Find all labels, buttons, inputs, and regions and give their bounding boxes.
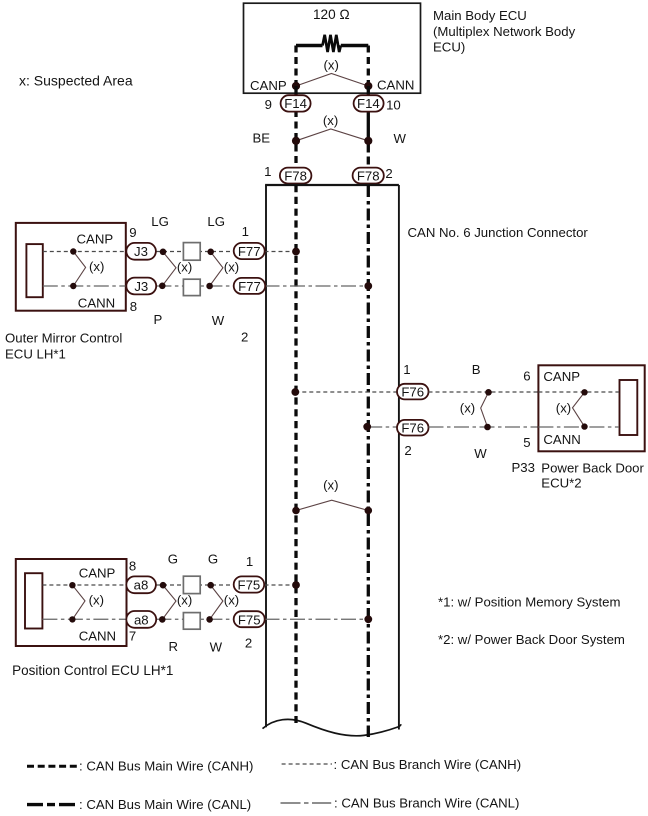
svg-text:*2: w/ Power Back Door System: *2: w/ Power Back Door System [438,632,625,647]
legend sample CAN bus branch wire CANL [281,802,332,804]
svg-text:(x): (x) [177,259,192,274]
svg-text:LG: LG [151,214,169,229]
svg-text:2: 2 [404,443,411,458]
wire CANL main bus (vertical, in junction box) [367,185,370,737]
node dot on CANH bus row3 [292,581,300,589]
wire CANH branch bus to F76 [295,391,397,393]
svg-text:F14: F14 [357,96,380,111]
node dot after J3 top [160,249,167,256]
svg-text:CAN No. 6 Junction Connector: CAN No. 6 Junction Connector [408,225,589,240]
svg-text:120 Ω: 120 Ω [313,7,350,22]
wire CANL branch F75 to bus [265,618,369,620]
wire CANL branch inside P33 [538,426,619,428]
wire CANL branch inside ECU [43,285,126,287]
svg-text:LG: LG [207,214,225,229]
svg-text:Main Body ECU: Main Body ECU [433,8,527,23]
node dot after a8 bottom [159,616,166,623]
Main Body ECU box [244,3,421,93]
node dot on CANL bus row2 [363,423,371,431]
ECU internal connector rect [620,380,638,435]
node dot branch CANH [485,389,492,396]
suspected area pointer inside ECU [72,585,85,619]
svg-text:1: 1 [242,224,249,239]
svg-text:F75: F75 [238,578,261,593]
svg-text:: CAN Bus Branch Wire (CANH): : CAN Bus Branch Wire (CANH) [334,757,522,772]
node dot on CANH bus row2 [291,388,299,396]
svg-text:BE: BE [253,130,271,145]
node CANN dot [364,82,372,90]
node BE dot [292,137,300,145]
svg-text:CANP: CANP [77,232,114,247]
connector F76 pin 1 [397,384,429,400]
node dot CANN inside ECU [69,616,75,622]
node dot before in-line top [207,249,214,256]
svg-text:: CAN Bus Branch Wire (CANL): : CAN Bus Branch Wire (CANL) [334,796,519,811]
svg-text:6: 6 [523,369,530,384]
node dot after a8 top [160,582,167,589]
svg-text:(x): (x) [177,593,192,608]
connector J3 pin 9 [126,243,156,260]
node dot CANN inside ECU [70,283,76,289]
connector F75 pin 2 [234,611,265,627]
in-line connector rect bottom row [183,279,200,295]
wire CANL main dashed segment above F78 [367,145,370,169]
wire CANH main bus (vertical, in junction box) [294,185,297,723]
svg-text:G: G [168,552,178,567]
svg-text:W: W [210,640,223,655]
svg-text:W: W [394,131,407,146]
suspected area pointer inside ECU [73,252,85,287]
svg-text:8: 8 [130,299,137,314]
svg-text:F76: F76 [401,385,424,400]
svg-text:9: 9 [129,225,136,240]
suspected area pointer after J3 [162,252,176,286]
connector F14 pin 9 [281,95,311,111]
suspected area pointer (between F14 and F78) [296,129,368,141]
svg-text:(Multiplex Network Body: (Multiplex Network Body [433,24,576,39]
svg-text:B: B [472,362,481,377]
svg-text:F76: F76 [401,421,424,436]
svg-text:Power Back Door: Power Back Door [541,460,644,475]
in-line connector rect bottom row [183,613,200,630]
junction box left edge [265,185,267,727]
CAN No. 6 Junction Connector box top edge [265,184,399,186]
svg-text:G: G [208,552,218,567]
node dot CANP inside ECU [70,248,76,254]
suspected area pointer inside P33 [573,392,585,426]
node CANP dot [292,82,300,90]
node dot on CANL bus row3 [364,615,372,623]
ECU internal connector rect [25,573,42,628]
svg-text:F78: F78 [357,168,380,183]
connector F78 pin 1 [280,168,312,184]
svg-text:(x): (x) [556,400,571,415]
svg-text:2: 2 [241,330,248,345]
wire CANL branch F76 to P33 [429,426,539,428]
svg-text:1: 1 [403,362,410,377]
legend sample CAN bus main wire CANH [27,765,78,768]
node dot before in-line bottom [206,616,213,623]
wire CANL branch inside ECU [42,618,126,620]
svg-text:(x): (x) [224,259,239,274]
node W dot [364,137,372,145]
svg-text:J3: J3 [134,244,148,259]
Outer Mirror Control ECU box [16,223,126,311]
Position Control ECU box [16,559,127,646]
svg-text:F77: F77 [238,279,261,294]
wire CANL branch J3 to F77 [156,285,233,287]
svg-text:CANP: CANP [250,78,287,93]
connector a8 pin 8 [126,576,156,593]
Power Back Door ECU box [538,365,644,451]
node dot CANP inside ECU [69,582,75,588]
wire to resistor left [296,44,323,48]
suspected area pointer after a8 [162,585,176,619]
wire CANH branch F75 to bus [265,584,297,586]
svg-text:x: Suspected Area: x: Suspected Area [19,73,133,89]
svg-text:(x): (x) [89,259,104,274]
svg-text:Outer Mirror Control: Outer Mirror Control [5,330,122,345]
connector F75 pin 1 [234,576,265,592]
svg-text:P: P [154,312,163,327]
suspected area pointer between buses [296,500,368,510]
connector F77 pin 2 [234,278,266,294]
node dot on CANH bus row1 [292,248,300,256]
node dot before in-line bottom [206,283,213,290]
svg-text:*1: w/ Position Memory System: *1: w/ Position Memory System [438,595,620,610]
wire CANH branch F76 to P33 [429,391,539,393]
svg-text:ECU LH*1: ECU LH*1 [5,347,66,362]
svg-text:(x): (x) [323,113,338,128]
suspected area pointer (top box) [296,74,368,87]
connector F76 pin 2 [397,420,429,436]
connector F78 pin 2 [353,168,384,184]
junction box right edge [398,185,400,730]
svg-text:(x): (x) [323,477,338,492]
svg-text:F78: F78 [284,168,307,183]
svg-text:P33: P33 [512,460,535,475]
node dot branch CANL [484,424,491,431]
wire CANH main between F14 and F78 [294,110,297,168]
connector F77 pin 1 [234,243,265,259]
node dot CANN inside P33 [581,423,587,429]
wire CANH branch F77 to bus [265,251,297,253]
svg-text:CANN: CANN [79,628,116,643]
svg-text:2: 2 [385,166,392,181]
svg-text:CANP: CANP [543,369,580,384]
svg-text:F77: F77 [238,244,261,259]
svg-text:5: 5 [523,435,530,450]
legend sample CAN bus branch wire CANH [282,763,332,765]
wire CANL branch bus to F76 [367,426,397,428]
suspected area pointer before F75 [210,585,223,619]
svg-text:a8: a8 [134,578,149,593]
wire CANL main inside Main Body ECU [367,46,370,87]
wire CANL branch a8 to F75 [156,618,233,620]
svg-text:ECU*2: ECU*2 [541,476,581,491]
ECU internal connector rect [26,244,42,297]
svg-text:(x): (x) [324,58,339,73]
wire CANL main solid segment below F14 [367,110,370,141]
svg-text:F75: F75 [238,612,261,627]
svg-text:CANN: CANN [78,295,115,310]
wire to resistor right [341,44,369,48]
wire CANH branch a8 to F75 [156,584,234,586]
svg-text:2: 2 [245,636,252,651]
svg-text:: CAN Bus Main Wire (CANH): : CAN Bus Main Wire (CANH) [79,759,253,774]
connector J3 pin 8 [126,278,156,295]
wire CANH main (dashed) inside Main Body ECU [294,46,297,87]
node dot on CANL bus row1 [364,282,372,290]
connector F14 pin 10 [354,95,384,111]
svg-text:CANN: CANN [543,432,580,447]
svg-text:(x): (x) [460,400,475,415]
svg-text:W: W [474,446,487,461]
wire CANL between dot and F14 [367,86,370,96]
node dot before in-line top [207,582,214,589]
svg-text:7: 7 [129,629,136,644]
connector a8 pin 7 [126,611,156,628]
node dot CANL bus mid [365,507,373,515]
wire CANH between dot and F14 [294,86,297,96]
svg-text:ECU): ECU) [433,40,465,55]
svg-text:CANN: CANN [377,78,414,93]
svg-text:CANP: CANP [79,566,116,581]
svg-text:10: 10 [386,97,401,112]
svg-text:8: 8 [129,558,136,573]
svg-text:a8: a8 [134,612,149,627]
svg-text:1: 1 [264,164,271,179]
junction box torn bottom wave [263,719,401,735]
wire CANH branch J3 to F77 [156,251,234,253]
legend sample CAN bus main wire CANL [27,803,78,806]
svg-text:(x): (x) [224,593,239,608]
svg-text:J3: J3 [134,279,148,294]
suspected area pointer before F77 [210,252,223,286]
svg-text:(x): (x) [89,592,104,607]
node dot CANH bus mid [292,507,300,515]
svg-text:9: 9 [265,97,272,112]
svg-text:W: W [212,313,225,328]
wire CANH branch inside ECU [42,584,126,586]
svg-text:R: R [169,639,179,654]
suspected area pointer between F76 and P33 [481,392,489,427]
svg-text:1: 1 [246,554,253,569]
svg-text:F14: F14 [284,96,307,111]
node dot after J3 bottom [159,283,166,290]
in-line connector rect top row [183,576,200,593]
in-line connector rect top row [183,243,200,261]
svg-text:Position Control ECU LH*1: Position Control ECU LH*1 [12,663,173,678]
resistor 120Ω zigzag [323,35,341,52]
wire CANL branch F77 to bus [265,285,369,287]
node dot CANP inside P33 [581,389,587,395]
wire CANH branch inside P33 [538,391,619,393]
svg-text:: CAN Bus Main Wire (CANL): : CAN Bus Main Wire (CANL) [79,797,251,812]
wire CANH branch inside ECU [43,251,126,253]
